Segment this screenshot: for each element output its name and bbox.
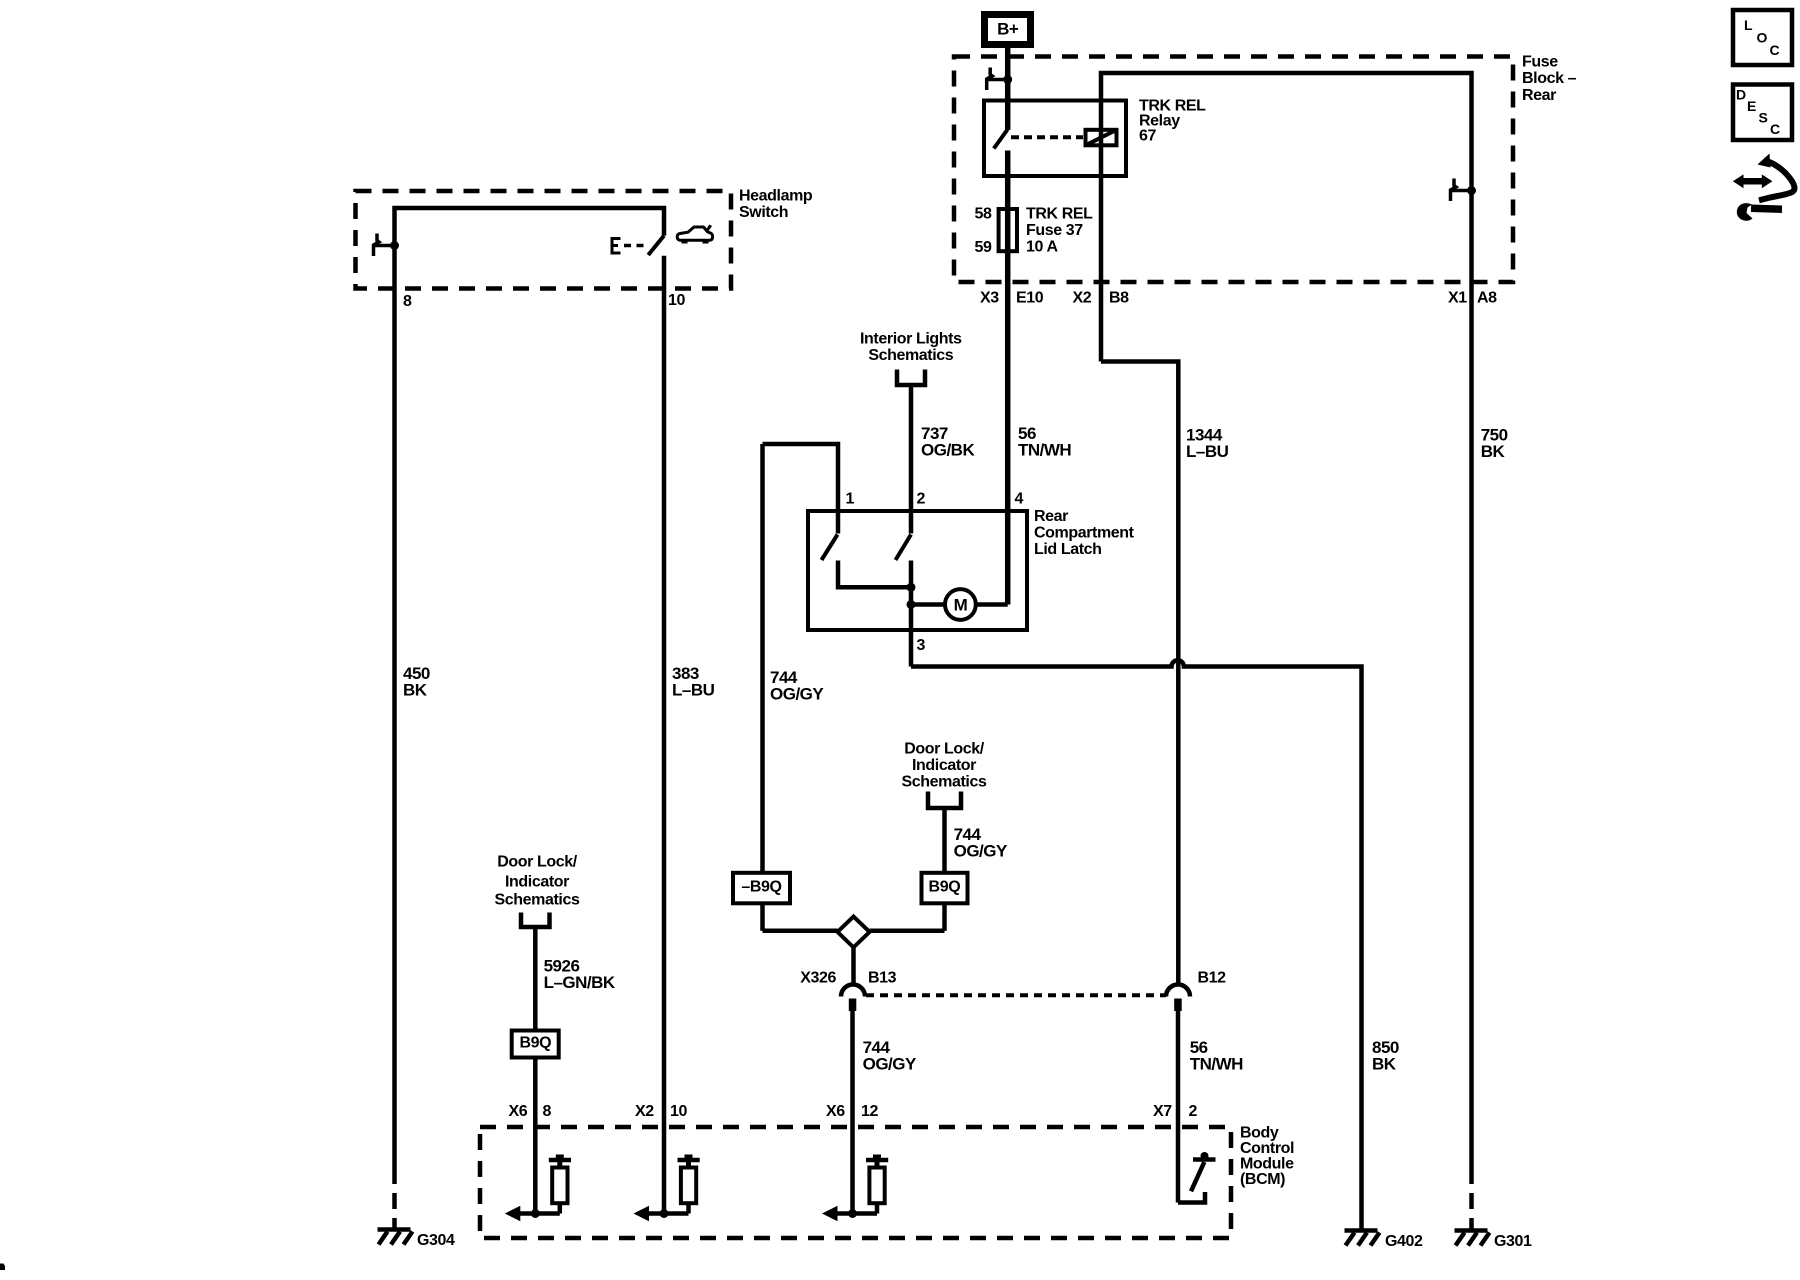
splice -B9Q [733, 873, 790, 904]
svg-text:X2: X2 [1073, 290, 1092, 307]
svg-text:B12: B12 [1198, 970, 1227, 987]
off-page bracket door lock left [521, 913, 550, 928]
svg-text:E: E [1747, 98, 1756, 114]
wire relay to fuse 37 (E10 feed) [1005, 151, 1011, 605]
splice B9Q mid [922, 873, 968, 904]
svg-text:L–GN/BK: L–GN/BK [544, 973, 616, 992]
connector B13 half circle [841, 985, 865, 997]
svg-text:TN/WH: TN/WH [1190, 1055, 1243, 1074]
dashed connector line B13-B12 [866, 993, 1166, 997]
connector clip pin 8 [374, 234, 380, 257]
wire diamond to X326 [851, 947, 856, 984]
svg-text:B9Q: B9Q [929, 879, 961, 896]
wire 737 OG/BK [909, 385, 914, 534]
svg-text:L: L [1744, 17, 1753, 33]
svg-text:58: 58 [975, 206, 992, 223]
ground G304 [378, 1230, 413, 1245]
relay control dashed line [1011, 135, 1083, 139]
ground G402 [1345, 1231, 1380, 1246]
svg-text:10 A: 10 A [1026, 239, 1058, 256]
svg-text:OG/BK: OG/BK [921, 441, 975, 460]
rear compartment lid latch box [808, 511, 1027, 630]
svg-text:TN/WH: TN/WH [1018, 441, 1071, 460]
splice B9Q left [512, 1031, 559, 1058]
latch switch 1 contact [838, 561, 912, 588]
car icon [677, 227, 712, 240]
svg-text:59: 59 [975, 239, 992, 256]
svg-text:Fuse 37: Fuse 37 [1026, 222, 1083, 239]
svg-text:X3: X3 [980, 290, 999, 307]
wire 383 L-BU [662, 256, 667, 1214]
nav arrows / wrench icon [1740, 178, 1766, 185]
svg-text:BK: BK [1481, 442, 1506, 461]
svg-text:C: C [1770, 42, 1780, 58]
svg-text:Switch: Switch [739, 204, 788, 221]
svg-text:BK: BK [1372, 1055, 1397, 1074]
wire 744 OG/GY mid [942, 808, 947, 873]
svg-text:10: 10 [670, 1103, 687, 1120]
fuse block rear dashed box [954, 57, 1513, 283]
svg-text:2: 2 [1189, 1103, 1198, 1120]
latch switch 2 blade [896, 535, 912, 561]
svg-text:Fuse: Fuse [1522, 54, 1558, 71]
connector B12 half circle [1166, 985, 1190, 997]
wire 744 OG/GY to BCM X6-12 [850, 1011, 855, 1214]
svg-text:BK: BK [403, 681, 428, 700]
wire latch pin 3 to 850 BK riser (hop over 1344) [911, 660, 1362, 1229]
body control module dashed box [480, 1127, 1231, 1238]
svg-text:Module: Module [1240, 1156, 1294, 1173]
svg-text:X6: X6 [826, 1103, 845, 1120]
latch common node [909, 561, 914, 667]
connector clip at A8 riser [1451, 179, 1457, 202]
off-page bracket door lock mid [928, 792, 961, 809]
svg-text:67: 67 [1139, 128, 1156, 145]
fuse 37 TRK REL 10A [999, 209, 1017, 251]
svg-text:C: C [1770, 121, 1780, 137]
svg-text:Indicator: Indicator [505, 874, 569, 891]
svg-text:Block –: Block – [1522, 70, 1577, 87]
DESC box [1733, 85, 1792, 141]
svg-text:Rear: Rear [1034, 508, 1068, 525]
svg-text:X6: X6 [509, 1103, 528, 1120]
svg-text:OG/GY: OG/GY [863, 1055, 917, 1074]
svg-text:X2: X2 [635, 1103, 654, 1120]
svg-text:D: D [1736, 87, 1746, 103]
svg-text:L–BU: L–BU [672, 681, 715, 700]
LOC box [1733, 10, 1792, 65]
svg-text:OG/GY: OG/GY [770, 685, 824, 704]
svg-text:Control: Control [1240, 1140, 1294, 1157]
svg-text:O: O [1757, 30, 1768, 46]
svg-text:Body: Body [1240, 1125, 1279, 1142]
wire 1344 L-BU (B8 to B12) [1101, 362, 1178, 985]
svg-text:G301: G301 [1494, 1233, 1532, 1250]
wire coil through B8 [1099, 101, 1104, 362]
svg-text:Schematics: Schematics [868, 347, 953, 364]
latch switch 1 blade [822, 535, 838, 561]
wire B9Q to BCM X6-8 [533, 1058, 538, 1214]
svg-text:A8: A8 [1477, 290, 1497, 307]
svg-text:B+: B+ [997, 20, 1019, 39]
svg-text:X1: X1 [1448, 290, 1467, 307]
svg-text:Compartment: Compartment [1034, 525, 1135, 542]
svg-text:B13: B13 [868, 970, 897, 987]
B+ power symbol [985, 15, 1031, 45]
svg-text:3: 3 [917, 637, 926, 654]
svg-text:1: 1 [846, 491, 855, 508]
splice diamond node [838, 917, 870, 948]
wire 450 BK [392, 246, 397, 1169]
svg-text:Door Lock/: Door Lock/ [904, 741, 985, 758]
svg-text:S: S [1759, 110, 1768, 126]
BCM driver X6-12 [866, 1158, 888, 1163]
svg-text:G304: G304 [417, 1232, 455, 1249]
svg-text:10: 10 [668, 292, 685, 309]
off-page bracket interior lights [897, 370, 925, 386]
svg-text:4: 4 [1015, 491, 1024, 508]
svg-text:E10: E10 [1016, 290, 1044, 307]
wire 750 BK riser to G301 [1469, 282, 1474, 1168]
svg-text:8: 8 [543, 1103, 552, 1120]
svg-text:Schematics: Schematics [495, 892, 580, 909]
wire 5926 L-GN/BK [533, 927, 538, 1031]
page edge artifact [0, 1264, 5, 1271]
svg-text:Indicator: Indicator [912, 757, 976, 774]
svg-text:Rear: Rear [1522, 87, 1556, 104]
wire latch pin 1 feed [763, 444, 839, 534]
wire 744 OG/GY latch pin1 branch [760, 444, 765, 873]
svg-text:X7: X7 [1153, 1103, 1172, 1120]
headlamp switch dashed box [356, 191, 732, 289]
svg-text:M: M [954, 596, 968, 615]
svg-text:Headlamp: Headlamp [739, 188, 813, 205]
svg-text:B9Q: B9Q [519, 1035, 551, 1052]
motor M [911, 602, 945, 607]
svg-text:(BCM): (BCM) [1240, 1171, 1285, 1188]
svg-text:OG/GY: OG/GY [954, 842, 1008, 861]
svg-text:2: 2 [917, 491, 926, 508]
svg-text:8: 8 [403, 293, 412, 310]
svg-text:X326: X326 [800, 970, 836, 987]
svg-text:Schematics: Schematics [902, 774, 987, 791]
BCM switch X7-2 [1178, 1160, 1216, 1203]
svg-text:G402: G402 [1385, 1233, 1423, 1250]
relay switch blade [994, 130, 1008, 149]
relay coil box [1086, 130, 1117, 146]
wire across headlamp switch [395, 208, 665, 246]
BCM driver X6-8 [549, 1158, 571, 1163]
svg-text:Lid Latch: Lid Latch [1034, 541, 1102, 558]
svg-text:–B9Q: –B9Q [741, 879, 781, 896]
connector clip at B+ entry [987, 68, 993, 91]
relay TRK REL 67 box [984, 101, 1126, 177]
wire relay top to X1 riser [1101, 73, 1472, 282]
svg-text:Door Lock/: Door Lock/ [497, 854, 578, 871]
svg-text:L–BU: L–BU [1186, 442, 1229, 461]
wire B+ to relay [1005, 48, 1011, 130]
svg-text:B8: B8 [1109, 290, 1129, 307]
lamp symbol E [611, 237, 621, 255]
svg-text:TRK REL: TRK REL [1026, 206, 1093, 223]
svg-text:12: 12 [861, 1103, 878, 1120]
wire 56 TN/WH to BCM X7-2 [1176, 1011, 1181, 1203]
ground G301 [1455, 1231, 1490, 1246]
BCM driver X2-10 [678, 1158, 700, 1163]
headlamp switch blade [648, 236, 664, 255]
svg-text:Interior Lights: Interior Lights [860, 331, 962, 348]
